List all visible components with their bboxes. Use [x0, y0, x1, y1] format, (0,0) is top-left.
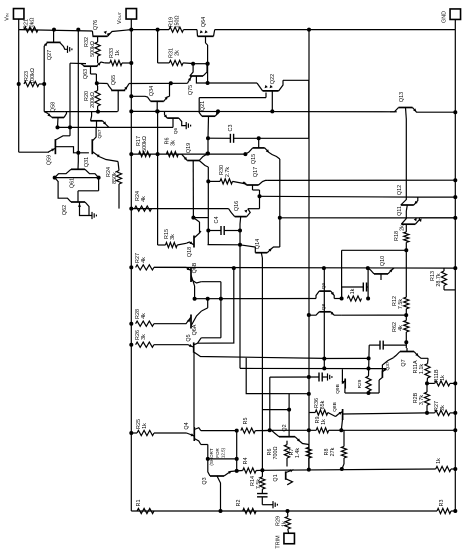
wire VIN down rail [19, 30, 49, 153]
wire Q27 emitter down [43, 50, 45, 112]
svg-text:FOR: FOR [215, 448, 220, 458]
transistor Q37 [379, 358, 393, 380]
node y268 j233 [232, 266, 236, 270]
svg-text:3k: 3k [171, 140, 177, 146]
node VOUT j344 [129, 343, 133, 347]
wire y217 stub [193, 217, 208, 219]
transistor Q19 [178, 143, 208, 218]
svg-text:1k: 1k [282, 521, 288, 527]
wire x280 v [279, 159, 281, 247]
resistor R31 2k [169, 48, 195, 65]
node VOUT j323 [129, 322, 133, 326]
svg-text:Q9: Q9 [321, 282, 327, 289]
svg-text:27k: 27k [330, 447, 336, 456]
wire y470 main [262, 469, 435, 470]
wire Q2 base v [288, 394, 290, 437]
transistor Q5 [182, 334, 201, 427]
resistor R8 27k [324, 430, 347, 469]
resistor R27 4k [135, 253, 154, 270]
resistor R25 1k [131, 419, 186, 436]
wire VOUT rail [130, 19, 132, 511]
transistor Q3 [202, 459, 237, 511]
svg-text:Q59: Q59 [47, 155, 53, 165]
resistor R11B 1k [427, 369, 455, 386]
transistor Q16 [229, 201, 251, 369]
wire x207 segA [207, 138, 209, 153]
node GND j430 [453, 428, 457, 432]
node y393 j368 [367, 391, 371, 395]
node x240 244 [238, 243, 242, 247]
svg-text:1.1k: 1.1k [419, 364, 425, 374]
resistor R29b [357, 376, 371, 391]
node x289 409 [287, 408, 291, 412]
capacitor C3 [208, 125, 259, 143]
node R20 top [95, 81, 99, 85]
node VOUT j208 [129, 207, 133, 211]
svg-text:Q5: Q5 [186, 334, 192, 341]
node GND j268 [453, 266, 457, 270]
svg-text:2.7k: 2.7k [225, 167, 231, 177]
node VIN j84 [17, 82, 21, 86]
svg-text:1k: 1k [142, 423, 148, 429]
transistor Q61b [55, 162, 99, 189]
node GND j383 [453, 381, 457, 385]
resistor R14 7.5k [250, 470, 265, 489]
node VOUT j111 [129, 109, 133, 113]
svg-text:Q6A: Q6A [192, 324, 198, 335]
wire Q34 emit up [169, 83, 171, 96]
node y458 j236 [235, 457, 239, 461]
node top rail j5 [307, 28, 311, 32]
transistor Q7 [394, 348, 429, 367]
wire y83 Q22 [208, 83, 263, 91]
transistor Q14 [255, 239, 280, 470]
svg-text:7.5k: 7.5k [256, 479, 262, 489]
svg-text:C3: C3 [228, 125, 234, 132]
node x280 218 [278, 216, 282, 220]
node top rail j1 [52, 28, 56, 32]
node R11A bot [425, 381, 429, 385]
svg-text:20kΩ: 20kΩ [30, 18, 36, 31]
wire Q4 base right [201, 445, 208, 459]
svg-text:R4: R4 [243, 458, 249, 465]
node y298 j207 [206, 297, 210, 301]
transistor Q58 [44, 102, 66, 128]
wire VIN drop [18, 19, 20, 30]
svg-text:Q58: Q58 [51, 102, 57, 112]
capacitor C6 [257, 489, 273, 505]
node GND j112 [453, 110, 457, 114]
wire Q22 to x309 [283, 30, 309, 81]
wire y430 mid [263, 429, 270, 431]
transistor Q10 [368, 256, 394, 280]
wire R18 left [342, 250, 407, 298]
node y368 j368 [367, 367, 371, 371]
node y111 j157 [156, 109, 160, 113]
resistor R12 7.5k [392, 258, 409, 309]
resistor R26b 3k [135, 330, 182, 347]
wire x207 bot [208, 244, 241, 246]
svg-text:Q12: Q12 [397, 185, 403, 195]
resistor R24v 850k [106, 167, 122, 209]
wire R11A b [426, 378, 429, 384]
node y153 j245 [243, 152, 247, 156]
resistor R6a 3k [165, 138, 179, 157]
wire bottom y511 [131, 510, 437, 512]
wire out-left y111 [65, 111, 118, 113]
resistor R4 [237, 458, 263, 474]
svg-text:850k: 850k [112, 172, 118, 184]
svg-text:Q19: Q19 [186, 143, 192, 153]
resistor R1 [136, 500, 154, 514]
node R12 bot [404, 313, 408, 317]
node C3 right [257, 136, 261, 140]
wire R12 b [405, 309, 407, 315]
transistor Q76 [92, 20, 131, 36]
wire y357 [194, 352, 324, 358]
node Q17 base [258, 194, 262, 198]
wire y208 right [248, 208, 260, 210]
wire y268 [154, 266, 455, 269]
wire y358 [324, 357, 368, 359]
node x309 315 [307, 313, 311, 317]
svg-text:200kΩ: 200kΩ [90, 92, 96, 108]
node y298 j341 [340, 297, 344, 301]
node y152 j78 [76, 151, 80, 155]
wire Q12 emit [418, 196, 456, 198]
svg-text:1k: 1k [440, 375, 446, 381]
resistor R27b 2k [427, 401, 455, 415]
svg-text:1k: 1k [436, 458, 442, 464]
wire R23 right [39, 82, 46, 86]
wire y218 [280, 217, 456, 219]
node R31 j207 [206, 62, 210, 66]
node y177 j53 [53, 176, 57, 180]
transistor Q6A [182, 311, 202, 335]
node x309 429 [307, 428, 311, 432]
wire top rail left [19, 30, 93, 31]
svg-text:Q18: Q18 [187, 247, 193, 257]
transistor Q57 [91, 112, 110, 139]
transistor Q2 [270, 424, 309, 444]
svg-text:Q4: Q4 [184, 422, 190, 429]
node R2B bot [425, 411, 429, 415]
resistor R30 2.7k [208, 165, 247, 184]
resistor R9 1k [315, 417, 341, 433]
svg-text:R3: R3 [439, 500, 445, 507]
wire Q3 emit [228, 471, 231, 474]
resistor R28 4k [135, 309, 182, 326]
wire x78 v [77, 30, 79, 153]
node R18 bot [404, 248, 408, 252]
wire y97 [199, 93, 266, 98]
svg-text:Q76: Q76 [93, 20, 99, 30]
resistor R5 [241, 418, 270, 434]
node y430 j236 [235, 429, 239, 433]
wire y458 [208, 458, 237, 460]
node y153 j207 [206, 152, 210, 156]
node y268 j323 [322, 266, 326, 270]
wire Q59 base [56, 147, 89, 153]
transistor Q64 dual [197, 17, 215, 36]
svg-text:Q14: Q14 [255, 239, 261, 249]
pad VOUT [117, 9, 137, 24]
svg-text:Q62: Q62 [62, 205, 68, 215]
transistor Q8 [309, 303, 406, 315]
node y430 j269 [268, 428, 272, 432]
wire y111 mid [131, 110, 397, 112]
wire Q64 base down [206, 36, 208, 83]
transistor Q15 [245, 138, 279, 164]
wire y430 right [341, 429, 455, 431]
wire y127 [56, 126, 173, 128]
svg-text:Q11: Q11 [397, 206, 403, 216]
resistor R24h 4k [135, 191, 152, 211]
wire Q6B coll [201, 282, 221, 338]
node x207 181 [206, 179, 210, 183]
svg-text:Q22: Q22 [270, 74, 276, 84]
pad TRIM [276, 533, 295, 548]
svg-text:1.4k: 1.4k [295, 448, 301, 458]
svg-text:4k: 4k [398, 325, 404, 331]
wire R31 to x207 [193, 63, 208, 65]
resistor R11A 1.1k [413, 358, 430, 378]
node y153 j157 [156, 152, 160, 156]
wire Q11 emit [420, 217, 456, 219]
svg-text:Q21: Q21 [200, 101, 206, 111]
wire top rail mid [131, 29, 197, 31]
transistor Q12 [397, 185, 418, 211]
svg-text:Q6: Q6 [173, 127, 179, 134]
node y111 j98 [96, 110, 100, 114]
transistor Q22 dual [263, 74, 283, 112]
svg-text:4k: 4k [141, 313, 147, 319]
node x207 153 [206, 152, 210, 156]
node VOUT j96 [129, 94, 133, 98]
svg-text:R29: R29 [357, 379, 363, 388]
svg-text:R5: R5 [243, 418, 249, 425]
resistor R6 700 [267, 441, 290, 467]
resistor R33 1k [105, 48, 132, 66]
wire x233 corner [198, 268, 234, 343]
node y127 j70 [68, 125, 72, 129]
resistor R3 [437, 500, 455, 514]
wire R31 feed [158, 30, 170, 63]
node GND j180 [453, 178, 457, 182]
svg-text:3.7k: 3.7k [419, 395, 425, 405]
svg-text:R2: R2 [236, 500, 242, 507]
node y127 j55 [56, 125, 60, 129]
node GND j413 [453, 411, 457, 415]
svg-text:Q64: Q64 [201, 17, 207, 27]
resistor R23 500k [24, 68, 39, 86]
wire x309 long [308, 80, 310, 470]
resistor R18 2k [394, 225, 409, 250]
node y470 j308 [307, 468, 311, 472]
wire GND drop [454, 20, 456, 30]
resistor R21 20k [24, 18, 39, 33]
pad GND [442, 9, 461, 23]
wire y83 left [97, 82, 108, 84]
svg-text:Q8: Q8 [321, 303, 327, 310]
wire GND rail [454, 30, 456, 511]
node y470 j341 [340, 467, 344, 471]
wire x368 v [367, 268, 369, 298]
svg-text:Q16: Q16 [234, 201, 240, 211]
node VOUT j154 [129, 152, 133, 156]
transistor Q6B [182, 262, 201, 298]
node R31 j194 [191, 62, 195, 66]
node y430 j341 [339, 428, 343, 432]
node VOUT j63 [129, 61, 133, 65]
svg-text:1k: 1k [321, 419, 327, 425]
transistor Q11 dual [397, 206, 422, 232]
wire Q31 emit [118, 162, 119, 171]
node y268 j367 [366, 266, 370, 270]
node x207 j83 [206, 81, 210, 85]
wire y63 left [70, 62, 86, 64]
transistor Q6 [164, 111, 186, 134]
svg-text:1k: 1k [115, 50, 121, 56]
resistor R2B 3.7k [413, 383, 430, 413]
svg-text:85k: 85k [320, 400, 326, 409]
node y111 j272 [270, 109, 274, 113]
transistor Q75 [187, 64, 207, 95]
transistor Q27 [44, 30, 67, 61]
svg-text:Q1: Q1 [273, 474, 279, 481]
resistor R36 85k [309, 398, 336, 416]
svg-text:Q65: Q65 [111, 75, 117, 85]
node y298 j368 [366, 297, 370, 301]
svg-text:Q10: Q10 [380, 256, 386, 266]
resistor R15 3k [164, 229, 187, 248]
svg-text:2k: 2k [175, 50, 181, 56]
node C2 left [367, 356, 371, 360]
node y83 j170 [169, 81, 173, 85]
ground C6 [273, 501, 277, 508]
node top rail j4 [156, 28, 160, 32]
ground Q27 [68, 46, 72, 53]
wire y244 right [240, 245, 255, 247]
transistor Q1 [273, 469, 294, 485]
wire y180 [267, 179, 455, 181]
svg-text:Q61: Q61 [70, 178, 76, 188]
wire x269 v [269, 377, 271, 430]
svg-text:Q27: Q27 [47, 50, 53, 60]
transistor Q65 [108, 75, 130, 112]
svg-text:C4: C4 [214, 217, 220, 224]
wire x207 segB [207, 167, 209, 245]
transistor Q17 [243, 167, 268, 209]
resistor R62 4k [392, 315, 409, 332]
capacitor C1 [342, 283, 369, 299]
svg-text:4k: 4k [141, 196, 147, 202]
node x207 230 [206, 229, 210, 233]
node GND j197 [453, 195, 457, 199]
svg-text:500kΩ: 500kΩ [90, 41, 96, 57]
transistor Q63 [81, 62, 105, 83]
resistor R17 500k [136, 136, 151, 157]
svg-text:3k: 3k [141, 334, 147, 340]
svg-text:2k: 2k [400, 225, 406, 231]
wire R15 feed [158, 244, 166, 246]
svg-text:500kΩ: 500kΩ [142, 136, 148, 152]
svg-text:Q75: Q75 [188, 85, 194, 95]
transistor Q31 [84, 127, 118, 167]
transistor Q9B [335, 369, 345, 394]
transistor Q62 [58, 178, 99, 216]
resistor R29 trim [276, 511, 291, 533]
node top rail j3 [129, 28, 133, 32]
wire Q62 feed [55, 178, 58, 182]
svg-text:R18: R18 [394, 231, 400, 241]
svg-text:Q31: Q31 [84, 157, 90, 167]
wire y298 end [309, 298, 342, 300]
svg-text:Q9B: Q9B [335, 384, 341, 394]
transistor Q8B [332, 402, 343, 430]
wire x70 v [69, 63, 71, 136]
transistor Q34 mirror [131, 86, 169, 112]
resistor R19 150 [169, 15, 184, 32]
wire Q6A jog [202, 299, 208, 311]
wire top rail right [215, 29, 456, 31]
svg-text:700Ω: 700Ω [273, 446, 279, 459]
wire y197 [260, 195, 419, 198]
resistor R2 [236, 500, 256, 514]
node Q34 base [155, 109, 159, 113]
node GND j511 [453, 509, 457, 513]
node y511 j288 [286, 509, 290, 513]
svg-text:28.7k: 28.7k [436, 273, 442, 286]
ground Q6 [186, 122, 190, 129]
wire y153 long [131, 153, 245, 155]
node y177 j98 [97, 176, 101, 180]
svg-text:Q3: Q3 [202, 477, 208, 484]
node R62 bot [404, 340, 408, 344]
wire x246 [246, 358, 309, 394]
node Q21 emit [216, 109, 220, 113]
svg-text:Q63: Q63 [83, 69, 89, 79]
capacitor C5 [270, 373, 328, 382]
svg-text:Q15: Q15 [251, 154, 257, 164]
wire x368 c2 [368, 345, 371, 376]
svg-text:Q13: Q13 [399, 92, 405, 102]
pad VIN [5, 9, 24, 21]
wire Q18 coll [193, 218, 199, 234]
node x262 470 [260, 468, 264, 472]
svg-text:Q8B: Q8B [332, 402, 338, 412]
transistor Q13 [390, 92, 455, 119]
wire Q4 coll right [201, 430, 237, 432]
wire y83 right [129, 82, 187, 84]
svg-text:Q7: Q7 [401, 359, 407, 366]
wire x324 v [323, 268, 325, 368]
wire y298 [195, 298, 309, 300]
node x323 358 [322, 357, 326, 361]
svg-text:4k: 4k [141, 257, 147, 263]
resistor R7 1.4k [289, 445, 311, 470]
svg-text:R1: R1 [136, 500, 142, 507]
svg-text:(SHORT: (SHORT [209, 448, 214, 465]
svg-text:Q57: Q57 [97, 129, 103, 138]
capacitor C4 [208, 217, 241, 235]
wire y393 [345, 380, 379, 393]
wire x157 v2 [157, 111, 159, 245]
resistor Rk1 1k [347, 288, 361, 301]
svg-text:1k: 1k [350, 288, 356, 294]
wire x236 v [236, 431, 238, 471]
node y470 j236 [235, 469, 239, 473]
